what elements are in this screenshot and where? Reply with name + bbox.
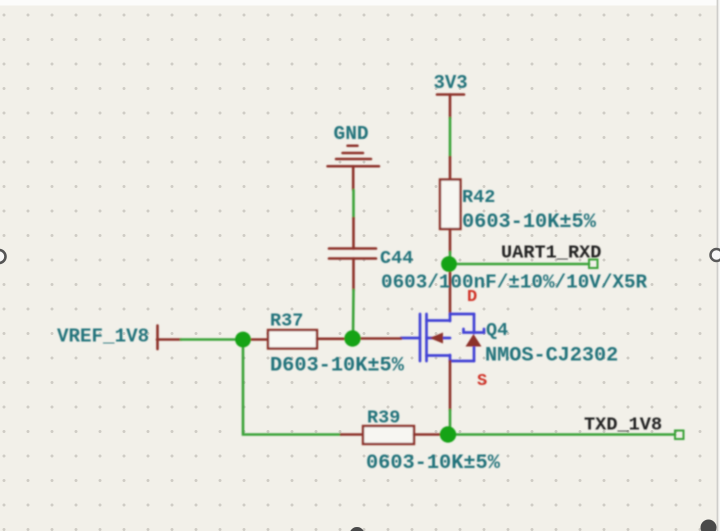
svg-text:GND: GND <box>334 123 369 145</box>
transistor Q4 <box>401 314 484 361</box>
resistor R39 <box>363 426 414 444</box>
wire junction to R37 <box>243 338 268 341</box>
wire UART1_RXD <box>449 260 598 269</box>
node VREF_1V8 <box>57 326 158 350</box>
power symbol GND <box>328 123 380 166</box>
junction gate node <box>344 330 360 346</box>
svg-text:C44: C44 <box>380 248 413 269</box>
wire R39 to junction <box>414 433 448 436</box>
resistor R37 <box>268 330 317 349</box>
wire to R39 <box>341 433 363 436</box>
wire 3V3 to R42 <box>449 95 452 181</box>
wire VREF junction down <box>243 340 341 435</box>
junction TXD node <box>440 426 456 442</box>
svg-text:NMOS-CJ2302: NMOS-CJ2302 <box>485 345 618 368</box>
svg-text:0603-10K±5%: 0603-10K±5% <box>366 452 501 475</box>
svg-text:3V3: 3V3 <box>434 72 468 94</box>
svg-text:S: S <box>477 372 487 391</box>
svg-text:R39: R39 <box>367 408 400 429</box>
svg-text:TXD_1V8: TXD_1V8 <box>584 415 662 436</box>
wire source pin <box>449 361 452 435</box>
wire R37 to junction <box>317 337 353 340</box>
wire C44 to junction <box>352 259 355 339</box>
capacitor C44 <box>329 249 376 259</box>
svg-text:VREF_1V8: VREF_1V8 <box>57 326 149 348</box>
svg-text:R42: R42 <box>462 187 495 208</box>
wire drain pin <box>449 264 452 314</box>
svg-text:Q4: Q4 <box>486 320 508 341</box>
wire VREF_1V8 to junction <box>157 338 243 341</box>
power label 3V3 <box>434 72 468 95</box>
svg-text:0603-10K±5%: 0603-10K±5% <box>462 211 597 234</box>
svg-text:0603/100nF/±10%/10V/X5R: 0603/100nF/±10%/10V/X5R <box>381 272 648 294</box>
svg-text:D603-10K±5%: D603-10K±5% <box>270 355 405 378</box>
wire GND to C44 <box>352 166 355 248</box>
resistor R42 <box>440 180 461 230</box>
wire R42 to junction <box>449 229 452 264</box>
junction UART1_RXD node <box>441 256 457 272</box>
wire junction to gate <box>353 337 402 340</box>
svg-text:UART1_RXD: UART1_RXD <box>501 243 601 264</box>
wire TXD_1V8 <box>448 431 684 440</box>
svg-text:R37: R37 <box>270 311 303 332</box>
junction VREF node <box>235 332 251 348</box>
